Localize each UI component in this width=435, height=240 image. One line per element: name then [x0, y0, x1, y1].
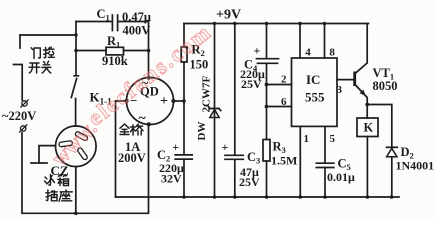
- terminal phi lower: [19, 124, 27, 132]
- capacitor C2 line upper: [183, 101, 185, 154]
- svg-text:200V: 200V: [118, 151, 146, 165]
- diode D2 lower wire: [391, 157, 393, 197]
- capacitor C4 plates: [257, 59, 279, 64]
- wire C1R1 right node down to bridge: [148, 22, 150, 78]
- wire C4 to pins 2/6 and R3: [266, 63, 268, 139]
- ground rail: [116, 196, 400, 198]
- svg-text:1.5M: 1.5M: [271, 154, 297, 168]
- +9V rail: [184, 23, 369, 25]
- socket slot bottom: [77, 147, 88, 160]
- resistor R2 body: [181, 47, 187, 62]
- svg-text:K: K: [364, 121, 374, 135]
- svg-text:~220V: ~220V: [2, 109, 36, 123]
- svg-text:25V: 25V: [241, 77, 262, 91]
- label door switch 开关: [29, 61, 51, 73]
- relay contact K1-1: [71, 76, 78, 126]
- junction R1-left: [74, 49, 78, 53]
- pin5 stub: [324, 126, 326, 163]
- label 全桥: [120, 124, 143, 135]
- bridge rectifier QD circle: [127, 78, 174, 125]
- pin4 stub: [299, 24, 301, 59]
- watermark www.elecfans.com: [46, 19, 216, 171]
- capacitor C5 plates: [316, 163, 334, 167]
- svg-text:910k: 910k: [102, 54, 128, 68]
- resistor R3 lower wire: [266, 161, 268, 197]
- svg-text:+9V: +9V: [216, 8, 241, 23]
- relay K box: [357, 118, 378, 137]
- junction DW top: [213, 22, 217, 26]
- resistor R3 body: [263, 140, 270, 162]
- svg-text:0.47μ: 0.47μ: [122, 10, 151, 24]
- svg-text:3: 3: [337, 84, 343, 96]
- capacitor C2 line lower: [183, 160, 185, 197]
- ground rail junctions: [182, 195, 186, 199]
- junction R1-right: [147, 49, 151, 53]
- capacitor C5 lower wire: [324, 168, 326, 198]
- svg-text:~: ~: [139, 111, 147, 126]
- resistor R1 left wire: [76, 50, 106, 52]
- junction emitter/D2: [365, 103, 369, 107]
- svg-text:6: 6: [281, 96, 287, 108]
- svg-text:0.01μ: 0.01μ: [327, 170, 355, 184]
- wire lower-left loop to bridge bottom: [22, 125, 149, 214]
- resistor R2 line upper: [183, 24, 185, 48]
- transistor VT1 collector: [355, 24, 367, 74]
- emitter arrow: [360, 90, 366, 96]
- door switch S lower contact tick: [14, 65, 23, 101]
- svg-text:IC: IC: [306, 72, 320, 87]
- junction pin6 node: [265, 105, 269, 109]
- junction C3 top: [233, 22, 237, 26]
- svg-text:555: 555: [305, 90, 325, 105]
- diode D2 symbol: [387, 146, 398, 148]
- bridge terminal dots: [147, 76, 151, 80]
- junction lower rail socket: [74, 212, 78, 216]
- label door switch 门控: [31, 47, 54, 59]
- svg-text:+: +: [254, 44, 261, 58]
- junction switch node: [74, 33, 77, 36]
- socket CZ circle: [56, 126, 97, 167]
- junction C4 top: [265, 22, 269, 26]
- node left vertical (C1/R1 left): [75, 22, 77, 76]
- svg-text:+: +: [160, 94, 168, 109]
- pin1 stub: [299, 126, 301, 197]
- junction pin2 node: [265, 83, 269, 87]
- capacitor C4 line upper: [266, 24, 268, 59]
- pin2 wire: [267, 84, 292, 86]
- svg-text:2: 2: [281, 74, 287, 86]
- svg-text:5: 5: [330, 133, 336, 145]
- svg-text:8: 8: [329, 47, 335, 59]
- svg-text:400V: 400V: [123, 23, 151, 37]
- resistor R1 body: [106, 47, 124, 55]
- svg-text:32V: 32V: [161, 172, 182, 186]
- pin8 stub: [324, 24, 326, 59]
- wire K to ground: [366, 137, 368, 198]
- svg-text:1: 1: [304, 133, 310, 145]
- capacitor C1 top wire: [76, 21, 112, 23]
- wire bridge minus to ground rail: [116, 101, 127, 197]
- capacitor C2 plates: [175, 155, 192, 159]
- svg-text:4: 4: [305, 47, 311, 59]
- socket slot left: [59, 141, 73, 147]
- svg-text:DW: DW: [196, 122, 208, 141]
- junction plus node: [182, 99, 186, 103]
- zener DW symbol: [208, 107, 220, 111]
- pin6 wire: [267, 106, 292, 108]
- zener DW line: [214, 24, 216, 198]
- transistor VT1 emitter: [355, 85, 367, 119]
- wire bridge plus to R2/C2 node: [173, 100, 184, 102]
- wire emitter to D2: [367, 105, 392, 148]
- capacitor C1 plates: [112, 15, 117, 31]
- label 插座: [46, 190, 73, 201]
- resistor R1 right wire: [124, 50, 149, 52]
- svg-text:25V: 25V: [239, 175, 260, 189]
- door switch S upper stub: [19, 35, 21, 48]
- IC 555 box: [292, 58, 338, 126]
- transistor VT1 base bar: [353, 72, 356, 87]
- label 冰箱: [45, 175, 69, 186]
- svg-text:1N4001: 1N4001: [396, 159, 435, 173]
- terminal phi upper: [20, 99, 28, 107]
- svg-text:+: +: [222, 140, 229, 154]
- resistor R2 line lower: [183, 62, 185, 101]
- svg-text:150: 150: [190, 58, 209, 72]
- capacitor C3 line lower: [234, 160, 236, 198]
- wire top-left horizontal to door switch: [20, 34, 76, 36]
- socket bottom wire: [75, 167, 77, 214]
- svg-text:2CW7F: 2CW7F: [201, 76, 213, 113]
- capacitor C3 plates: [225, 155, 243, 159]
- pin3 wire: [337, 79, 354, 81]
- svg-text:8050: 8050: [373, 79, 398, 93]
- capacitor C1 right wire: [118, 21, 149, 23]
- svg-text:+: +: [172, 140, 179, 154]
- socket earth mark: [31, 146, 56, 163]
- capacitor C3 line upper: [234, 24, 236, 156]
- socket slot top-right: [75, 131, 89, 141]
